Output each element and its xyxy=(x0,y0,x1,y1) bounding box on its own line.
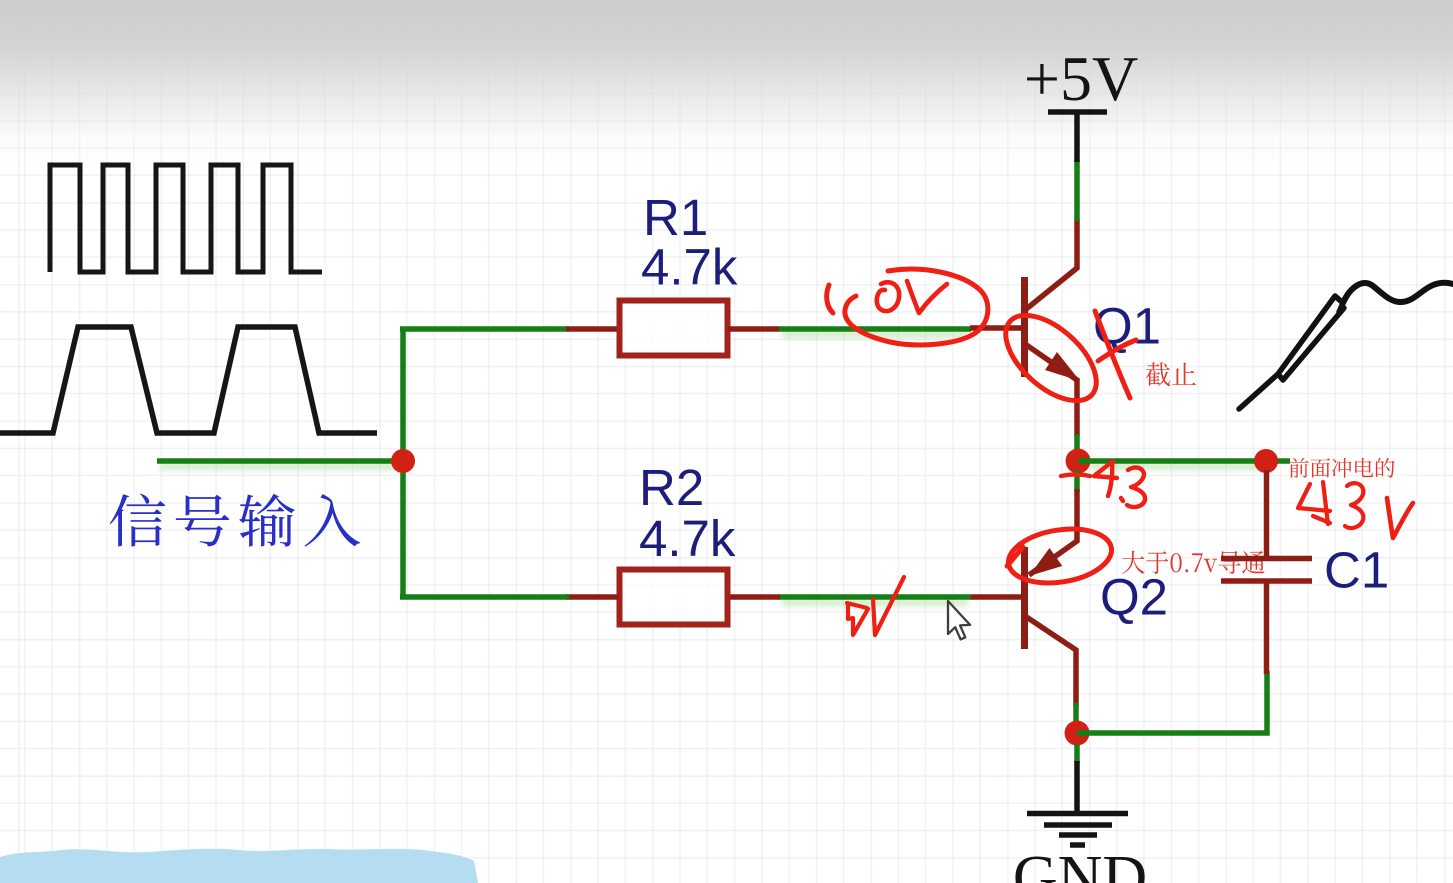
resistor R2 xyxy=(620,570,728,625)
ground symbol xyxy=(1074,761,1080,813)
wire signal input horizontal xyxy=(157,458,403,464)
junction node input xyxy=(391,449,415,473)
R1 right pin xyxy=(728,326,780,332)
annotation circle on Q2 emitter xyxy=(1007,547,1023,566)
Q1 emitter line xyxy=(1025,344,1077,436)
annotation circled 0V at Q1 base xyxy=(827,285,833,313)
soldering iron sketch body xyxy=(1278,296,1344,380)
trapezoid wave input sketch xyxy=(0,327,377,433)
annotation -4.3 at Q1 emitter node xyxy=(1061,475,1090,477)
R2 right pin xyxy=(728,594,780,600)
soldering iron sketch cable xyxy=(1343,283,1453,303)
wire R2 to Q2 base xyxy=(779,594,971,600)
wire gnd node to ground xyxy=(1074,744,1080,763)
transistor Q2 base bar xyxy=(1021,547,1028,649)
capacitor C1 top lead xyxy=(1264,470,1270,557)
wire gnd node to C1 bottom xyxy=(1077,671,1267,733)
svg-text:Q2: Q2 xyxy=(1100,569,1168,626)
annotation circle on Q1 emitter xyxy=(991,300,1112,417)
junction node C1 top xyxy=(1254,449,1278,473)
+5V power port xyxy=(1074,112,1080,162)
wire Q2 collector to gnd node xyxy=(1073,703,1079,724)
svg-text:GND: GND xyxy=(1013,844,1147,883)
R2 left pin xyxy=(566,594,619,600)
svg-text:4.7k: 4.7k xyxy=(639,510,736,567)
svg-text:+5V: +5V xyxy=(1024,43,1138,114)
annotation X cancel on Q1 xyxy=(1095,311,1136,398)
Q1 collector line xyxy=(1025,219,1077,310)
svg-text:C1: C1 xyxy=(1324,542,1389,599)
Q1 emitter arrow xyxy=(1045,352,1080,381)
transistor Q1 base bar xyxy=(1021,277,1028,377)
junction node out (Q1 emitter) xyxy=(1066,449,1091,474)
watermark wave bottom-left xyxy=(0,849,478,883)
R1 left pin xyxy=(566,326,619,332)
resistor R1 xyxy=(620,301,728,356)
label 截止 (cutoff) xyxy=(1146,362,1196,386)
capacitor C1 plates xyxy=(1221,556,1312,562)
Q2 emitter pin xyxy=(1029,489,1077,575)
wire R1 to Q1 base xyxy=(779,326,971,332)
wire Q1 emitter to node xyxy=(1074,434,1080,452)
Q2 base pin xyxy=(970,594,1022,600)
wire Q1 collector to +5V xyxy=(1074,160,1080,221)
Q2 emitter arrow (PNP) xyxy=(1029,548,1062,576)
Q1 base pin xyxy=(970,325,1022,331)
annotation 0V at Q2 base xyxy=(847,603,868,635)
soldering iron sketch tip xyxy=(1239,374,1278,409)
annotation 4.3v at C1 xyxy=(1298,482,1330,524)
svg-text:R2: R2 xyxy=(639,459,704,516)
label 信号输入 (signal input) xyxy=(110,494,360,547)
label 大于0.7v导通 (conducts above 0.7v) xyxy=(1122,551,1265,574)
square wave input sketch xyxy=(50,165,322,272)
capacitor C1 bottom lead xyxy=(1264,583,1270,674)
wire input vertical trunk xyxy=(400,327,406,600)
wire node to C1 node xyxy=(1078,458,1290,464)
wire node to Q2 emitter xyxy=(1074,470,1080,492)
wire input to R1 xyxy=(400,326,569,332)
mouse cursor xyxy=(948,601,970,639)
wire halo artifacts xyxy=(160,463,400,470)
Q2 collector line xyxy=(1025,616,1076,706)
wire input to R2 xyxy=(400,594,569,600)
junction node gnd xyxy=(1065,721,1090,746)
svg-text:4.7k: 4.7k xyxy=(641,239,738,296)
svg-text:R1: R1 xyxy=(643,189,708,246)
label 前面冲电的 (charged previously) xyxy=(1289,458,1395,478)
